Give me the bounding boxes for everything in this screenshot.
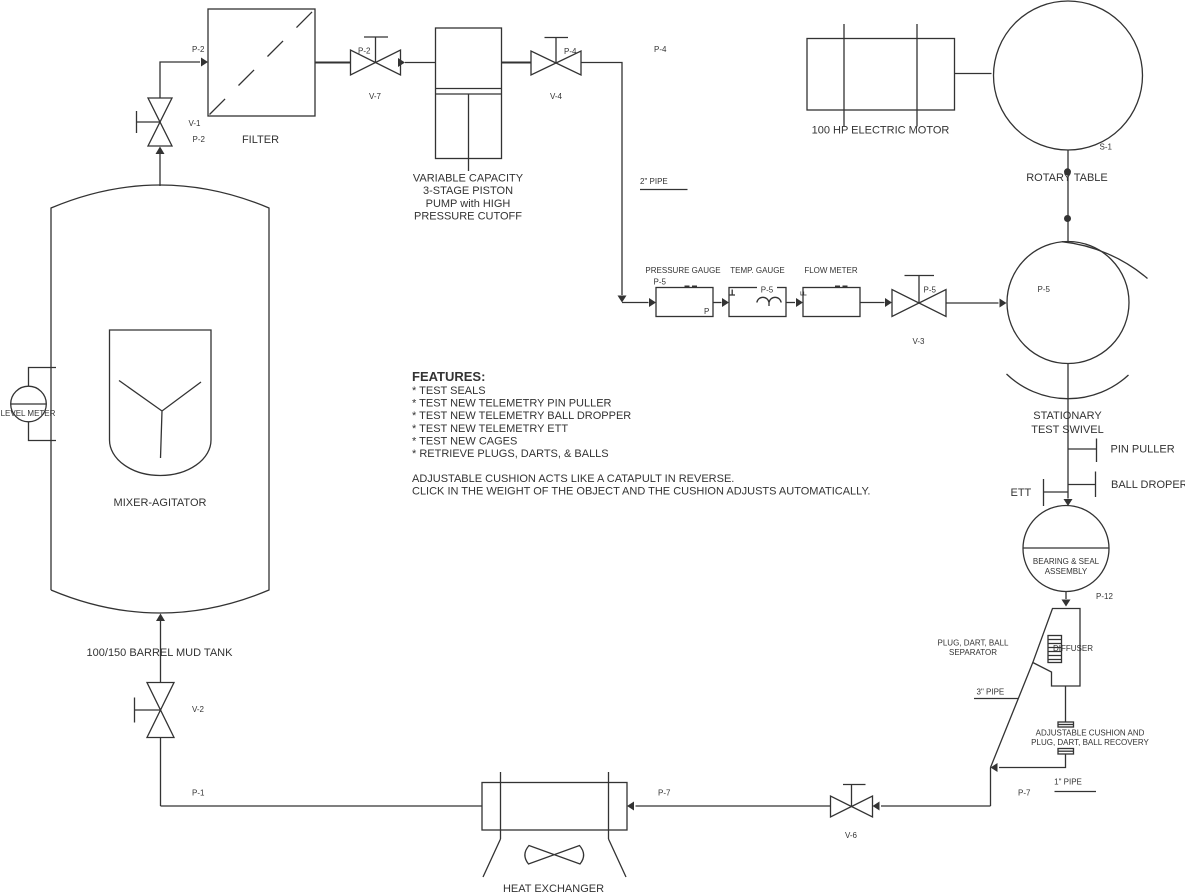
label 1" PIPE (1054, 778, 1096, 792)
svg-text:P-12: P-12 (1096, 592, 1113, 601)
label ADJUSTABLE CUSHION AND PLUG, DART, BALL RECOVERY (1031, 729, 1149, 748)
svg-text:* TEST SEALS: * TEST SEALS (412, 385, 486, 397)
wire: motor to rotary table (955, 73, 992, 75)
svg-text:FLOW METER: FLOW METER (804, 266, 858, 275)
swivel circle P-5 (1007, 242, 1129, 364)
svg-text:P: P (704, 307, 709, 316)
svg-text:V-4: V-4 (550, 92, 563, 101)
svg-text:P-5: P-5 (924, 286, 937, 295)
wire: into pressure gauge (622, 298, 656, 307)
svg-text:PLUG, DART, BALL: PLUG, DART, BALL (938, 639, 1010, 648)
svg-text:PIN PULLER: PIN PULLER (1111, 444, 1175, 456)
swivel rotation arc bottom (1007, 374, 1129, 399)
svg-text:V-7: V-7 (369, 92, 382, 101)
wire: junction down to return line (990, 768, 992, 807)
svg-text:100/150 BARREL MUD TANK: 100/150 BARREL MUD TANK (87, 647, 234, 659)
adjustable cushion flange upper (1058, 722, 1074, 727)
pin puller tap (1068, 439, 1097, 463)
diffuser hatch element (1048, 636, 1062, 663)
label 2" PIPE (640, 177, 688, 190)
wire: return line to V-6 (873, 802, 991, 811)
wire: rotary table down to swivel (1067, 150, 1069, 242)
svg-text:2" PIPE: 2" PIPE (640, 177, 668, 186)
svg-text:F: F (800, 291, 809, 296)
svg-text:ETT: ETT (1011, 487, 1032, 499)
ball dropper tap (1068, 472, 1096, 498)
valve V-4 (531, 38, 581, 76)
svg-text:P-7: P-7 (658, 789, 671, 798)
wire: cushion down and left to junction (991, 754, 1066, 772)
svg-text:P-2: P-2 (192, 45, 205, 54)
svg-text:3-STAGE PISTON: 3-STAGE PISTON (423, 185, 513, 197)
svg-text:* TEST NEW TELEMETRY BALL DROP: * TEST NEW TELEMETRY BALL DROPPER (412, 410, 631, 422)
svg-text:STATIONARY: STATIONARY (1033, 410, 1102, 422)
svg-text:* TEST NEW TELEMETRY PIN PULLE: * TEST NEW TELEMETRY PIN PULLER (412, 398, 612, 410)
wire: heat exchanger to tank riser (161, 805, 483, 807)
wire: V-6 to heat exchanger (627, 802, 831, 811)
svg-text:FEATURES:: FEATURES: (412, 369, 485, 384)
svg-text:S-1: S-1 (1100, 143, 1113, 152)
wire: V-1 to filter (160, 58, 208, 99)
wire: pressure gauge to temp gauge (713, 298, 729, 307)
svg-text:VARIABLE CAPACITY: VARIABLE CAPACITY (413, 173, 524, 185)
svg-text:P-1: P-1 (192, 789, 205, 798)
svg-text:PRESSURE GAUGE: PRESSURE GAUGE (645, 266, 720, 275)
wire: diffuser down to cushion (1065, 686, 1067, 722)
valve V-7 (351, 37, 401, 75)
valve V-1 (137, 98, 173, 146)
svg-text:V-2: V-2 (192, 705, 205, 714)
wire: tank top to valve V-1 (156, 147, 165, 187)
valve V-2 (135, 683, 175, 738)
wire: filter to V-7 (315, 62, 351, 64)
svg-text:P-5: P-5 (654, 278, 667, 287)
svg-text:* TEST NEW CAGES: * TEST NEW CAGES (412, 435, 517, 447)
bearing and seal assembly circle (1023, 506, 1109, 592)
wire: temp gauge to flow meter (786, 298, 803, 307)
svg-text:P-2: P-2 (193, 135, 206, 144)
wire: V-4 right then down to gauges (581, 63, 627, 303)
label PLUG, DART, BALL SEPARATOR (938, 639, 1010, 658)
svg-text:MIXER-AGITATOR: MIXER-AGITATOR (114, 497, 207, 509)
heat exchanger (482, 772, 627, 877)
flow meter (800, 286, 861, 317)
svg-text:ASSEMBLY: ASSEMBLY (1045, 567, 1088, 576)
svg-text:DIFFUSER: DIFFUSER (1053, 644, 1093, 653)
svg-text:P-5: P-5 (1038, 285, 1051, 294)
svg-text:3" PIPE: 3" PIPE (977, 688, 1005, 697)
svg-text:CLICK IN THE WEIGHT OF THE OBJ: CLICK IN THE WEIGHT OF THE OBJECT AND TH… (412, 486, 870, 498)
pump: variable capacity 3-stage piston pump (436, 28, 502, 171)
svg-text:P-4: P-4 (564, 47, 577, 56)
svg-text:P-4: P-4 (654, 45, 667, 54)
wire: V-2 up to tank bottom (156, 614, 165, 683)
wire: diffuser diagonal to recovery junction (991, 663, 1033, 768)
svg-text:PLUG, DART, BALL RECOVERY: PLUG, DART, BALL RECOVERY (1031, 738, 1149, 747)
wire: bearing to diffuser (1062, 592, 1071, 607)
svg-text:TEST SWIVEL: TEST SWIVEL (1031, 424, 1104, 436)
svg-text:V-3: V-3 (912, 337, 925, 346)
svg-text:BALL DROPER: BALL DROPER (1111, 479, 1185, 491)
svg-text:* RETRIEVE PLUGS, DARTS, & BAL: * RETRIEVE PLUGS, DARTS, & BALLS (412, 448, 609, 460)
svg-text:V-6: V-6 (845, 831, 858, 840)
svg-text:P-2: P-2 (358, 47, 371, 56)
svg-text:P-5: P-5 (761, 286, 774, 295)
svg-text:1" PIPE: 1" PIPE (1054, 778, 1082, 787)
svg-text:LEVEL METER: LEVEL METER (1, 409, 56, 418)
svg-text:ADJUSTABLE CUSHION AND: ADJUSTABLE CUSHION AND (1036, 729, 1145, 738)
temp gauge (729, 285, 786, 317)
agitator vessel outline inside tank (110, 330, 212, 475)
node dot upper (1064, 168, 1071, 175)
agitator impeller Y (119, 381, 201, 459)
wire: riser up to V-2 (160, 738, 162, 807)
svg-text:100 HP ELECTRIC MOTOR: 100 HP ELECTRIC MOTOR (812, 125, 950, 137)
svg-text:HEAT EXCHANGER: HEAT EXCHANGER (503, 883, 604, 895)
svg-text:* TEST NEW TELEMETRY ETT: * TEST NEW TELEMETRY ETT (412, 423, 568, 435)
svg-text:P-7: P-7 (1018, 789, 1031, 798)
wire: flow meter to V-3 (860, 298, 892, 307)
valve V-6 (831, 785, 873, 818)
heat exchanger fan symbol (525, 846, 584, 865)
wire: V-3 to swivel (946, 299, 1007, 308)
svg-text:V-1: V-1 (189, 119, 202, 128)
svg-text:PRESSURE CUTOFF: PRESSURE CUTOFF (414, 211, 522, 223)
svg-text:PUMP with HIGH: PUMP with HIGH (426, 198, 511, 210)
svg-text:SEPARATOR: SEPARATOR (949, 648, 997, 657)
label VARIABLE CAPACITY 3-STAGE PISTON PUMP with HIGH PRESSURE CUTOFF (413, 173, 524, 223)
label STATIONARY TEST SWIVEL (1031, 410, 1104, 436)
node dot lower (1064, 215, 1071, 222)
svg-text:FILTER: FILTER (242, 134, 279, 146)
pressure gauge (656, 286, 713, 317)
wire: V-7 to pump (398, 58, 436, 67)
ETT tap (1044, 479, 1068, 506)
label 3" PIPE (974, 688, 1019, 699)
wire: pump to V-4 (502, 62, 532, 64)
valve V-3 (892, 276, 946, 317)
tank: 100/150 barrel mud tank vessel (51, 185, 269, 613)
diffuser body (1033, 609, 1080, 687)
motor: 100 HP electric motor (807, 24, 955, 127)
rotary table circle S-1 (994, 1, 1143, 150)
svg-text:BEARING & SEAL: BEARING & SEAL (1033, 557, 1100, 566)
features text block (412, 369, 870, 498)
wire: swivel down to bearing assembly (1064, 364, 1073, 507)
filter F1 (208, 9, 315, 116)
swivel rotation arc top (1062, 242, 1148, 279)
adjustable cushion flange lower (1058, 749, 1074, 755)
level meter gauge circle (11, 386, 47, 422)
svg-text:ADJUSTABLE CUSHION ACTS LIKE A: ADJUSTABLE CUSHION ACTS LIKE A CATAPULT … (412, 473, 734, 485)
level meter bracket (29, 368, 57, 441)
svg-text:TEMP. GAUGE: TEMP. GAUGE (730, 266, 785, 275)
